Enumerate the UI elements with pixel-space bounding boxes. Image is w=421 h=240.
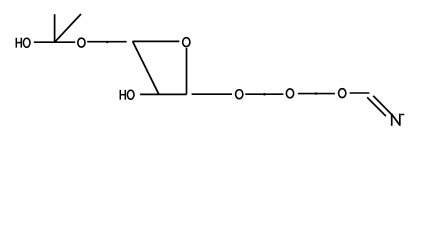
wire C5=N double bond upper line xyxy=(373,96,391,114)
label O1 ether oxygen xyxy=(78,38,85,47)
label HO (left hydroxyl) xyxy=(16,38,30,48)
label HO (bottom hydroxyl) xyxy=(120,90,134,100)
label negative charge on N xyxy=(401,114,405,115)
node dot on O3-O4 bond xyxy=(263,93,266,96)
wire methyl vertical on C1 xyxy=(54,14,56,42)
wire ring top edge C2-O2 xyxy=(133,40,180,42)
label O3 peroxide oxygen xyxy=(236,90,243,99)
wire C3-O3 bond xyxy=(192,93,232,95)
wire ring diagonal edge C2-C4 xyxy=(133,41,159,94)
wire O1 to ring bond xyxy=(87,41,126,43)
wire C5=N double bond lower line xyxy=(367,97,386,116)
label N anion nitrogen xyxy=(392,114,400,126)
label O4 peroxide oxygen xyxy=(286,89,293,98)
wire ring bottom edge C4-C3 with HO-C4 bond xyxy=(140,93,186,95)
label O2 ring oxygen xyxy=(183,38,190,47)
node dot on O4-O5 bond xyxy=(315,92,318,95)
wire HO-C1 and C1-O1 horizontal bond xyxy=(34,41,75,43)
wire O3-O4 bond xyxy=(245,93,283,95)
wire methyl diagonal on C1 xyxy=(55,14,81,42)
node dot on O1-ring bond xyxy=(106,41,108,43)
wire O4-O5 bond xyxy=(298,93,335,95)
label O5 terminal chain oxygen xyxy=(339,89,346,98)
wire O5-C5 bond xyxy=(350,92,370,94)
wire ring right edge O2-C3 xyxy=(186,48,188,95)
